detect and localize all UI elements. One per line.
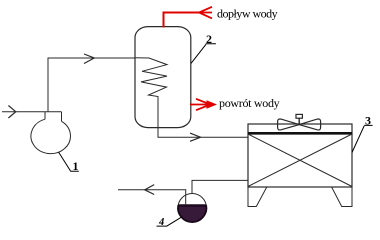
red open arrow pointing left — [199, 7, 212, 19]
svg-text:4: 4 — [158, 217, 164, 228]
arrow on vapor line — [84, 54, 94, 64]
label 3 leader — [352, 125, 373, 152]
cooler box 3 — [248, 124, 352, 187]
svg-text:1: 1 — [73, 159, 79, 173]
label 2 leader — [191, 44, 216, 64]
svg-text:powrót wody: powrót wody — [219, 96, 280, 110]
cooler left leg — [248, 187, 267, 207]
X diagonals — [248, 134, 352, 187]
thick water line — [248, 132, 352, 135]
flask 4 lower rim — [178, 205, 206, 222]
label 4 leader — [157, 217, 183, 226]
vessel 1 (flask with neck) — [31, 112, 70, 154]
wire: cooler to flask 4 — [192, 180, 248, 193]
arrow on outlet line — [145, 185, 155, 195]
arrow on tank-to-cooler line — [190, 133, 201, 141]
wire: tank bottom to cooler — [158, 127, 248, 137]
cooler right leg — [332, 187, 352, 207]
svg-text:dopływ wody: dopływ wody — [217, 7, 278, 21]
arrow on feed line — [8, 106, 15, 119]
wire: feed line into flask 1 — [2, 111, 62, 113]
wire: vapor line from flask 1 up — [48, 58, 135, 112]
wire: outlet from flask 4 with dip tube — [118, 190, 186, 205]
flask 4 outline — [178, 194, 206, 222]
flask 4 liquid — [178, 205, 206, 222]
svg-text:3: 3 — [365, 114, 371, 128]
red inflow pipe (doplyw wody) — [164, 13, 201, 28]
svg-text:2: 2 — [206, 32, 212, 46]
coil inside tank 2 — [135, 58, 167, 127]
red return arrow (powrot wody) — [190, 99, 217, 110]
label 1 leader — [59, 152, 79, 171]
tank 2 (heater vessel) — [135, 27, 191, 128]
fan on cooler top — [278, 114, 321, 130]
